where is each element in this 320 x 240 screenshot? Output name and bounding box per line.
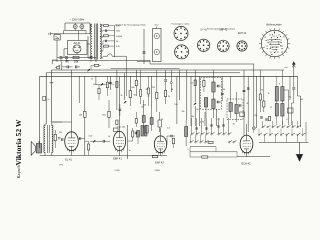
wire drop 216 [215,109,217,126]
svg-text:~ 220V 50Hz: ~ 220V 50Hz [70,19,85,22]
wafer switch spoke [282,54,283,56]
svg-text:3-30: 3-30 [200,122,204,124]
wafer switch spoke [282,31,283,33]
wire primary top lead [90,24,92,26]
wire right corner from bus [297,76,299,96]
padding capacitor box A [142,116,145,123]
wire psu tap rows [102,25,105,27]
rectifier tube V5 AZ41 [73,45,81,53]
wire coil verticals [276,100,278,104]
wire drop 130 [129,76,131,90]
capacitor C12 [109,81,112,83]
wafer switch contact dot [280,45,281,46]
wafer switch extra dots [268,40,269,41]
IF coil Fi2 secondary [235,105,238,114]
wire heater feed down [143,29,145,64]
wafer switch contact dot [278,43,279,44]
socket V4 top view [237,41,247,51]
wafer switch spoke [269,56,272,58]
wire S5 stubs [262,121,264,127]
capacitor row extra 3 [222,124,224,126]
wire mains right drop [89,23,91,26]
wire heater bus second [111,67,180,69]
wire drop 151 [150,76,152,108]
wafer switch spoke [265,31,266,33]
fuse Si1 [73,25,77,29]
capacitor C9 tone [61,138,63,141]
resistor R12 [165,90,167,97]
wire psu taps feed [102,24,104,27]
antenna arrow second chevron [292,65,295,68]
wafer switch contact dot [277,37,278,38]
capacitor box right of Fi2 [240,112,245,117]
capacitor C18 row [195,127,197,129]
resistor R1 tap row 1 [104,25,109,27]
svg-text:Kapsch: Kapsch [16,165,21,179]
ground arrow right [296,155,302,162]
wafer switch contact dot [281,48,282,49]
capacitor C12b [119,108,122,110]
trimmer cap Fi1 top [217,85,219,88]
oscillator coil box right [144,126,147,137]
cluster caps above switch [260,116,263,118]
switch S2 standby [57,66,60,68]
svg-text:0,2: 0,2 [167,128,170,130]
svg-text:6,3V~: 6,3V~ [116,26,121,28]
IF coil Fi1 sec A [204,98,207,108]
wafer switch spoke [262,51,264,52]
socket V3 top view [218,40,230,52]
wire rectifier to transformer [87,43,90,45]
power transformer T1 secondary winding [100,24,101,59]
wire psu right rail [114,26,116,58]
trimmer cap Fi1 bottom [217,101,219,104]
mains switch S1 box [54,35,60,40]
junction arrow 125 [124,101,127,103]
wire drop 179 [179,70,181,100]
resistor R3 filter [73,56,79,58]
svg-text:1M: 1M [79,114,82,116]
svg-text:8k: 8k [289,97,291,99]
RF coil L5 (bottom pair A) [275,104,278,117]
wire fuse to rectifier feed [78,31,80,41]
wafer switch contact dot [274,52,275,53]
capacitor C22 [247,87,250,89]
wire AF coupling [90,140,103,142]
wafer switch spoke [278,56,281,58]
wire tube V1 bottom [71,151,73,156]
switch row S5 lower [258,134,259,135]
wire psu drop to switch [56,58,58,63]
svg-text:25k: 25k [59,132,62,134]
svg-text:h5: h5 [48,99,50,101]
svg-text:200: 200 [191,116,194,118]
volume potentiometer P1 [84,111,87,117]
wafer switch contact dot [265,37,266,38]
wafer switch spoke [288,43,290,45]
wire drop 244 [243,70,245,99]
oscillator coil box left [141,126,144,137]
wafer switch contact dot [281,42,282,43]
svg-text:5000 200: 5000 200 [117,126,126,128]
wafer switch spoke [260,38,262,41]
svg-text:12: 12 [270,107,272,109]
wire secondary taps [100,24,103,26]
rectifier enclosure box [68,41,88,55]
wafer switch spoke [285,51,287,52]
resistor R6a [98,88,100,94]
padding capacitor box B [150,118,153,125]
mains plug ticks [50,32,52,35]
wafer switch contact dot [274,32,275,33]
svg-text:150: 150 [300,99,303,101]
resistor R13 in can [203,80,205,86]
capacitor row extra 1 [210,124,212,126]
switch row S5 upper [262,127,263,128]
wire HT bus upper [52,69,285,71]
resistor R16 [259,94,261,100]
resistor R8 anode [132,131,134,137]
svg-text:70: 70 [261,90,263,92]
IF coil L2 [185,127,188,137]
wire Fi1 leads [212,70,214,82]
svg-text:1n: 1n [128,150,130,152]
wire mains lower horizontal [51,33,91,35]
svg-text:10k: 10k [181,111,184,113]
wire link transformer to tube column [52,121,72,123]
resistor R4 tone [54,134,56,141]
wire heater drop 126 [125,56,127,96]
svg-text:25: 25 [91,79,93,81]
wafer switch contact dot [271,37,272,38]
wire drop 96 [95,58,97,63]
wafer switch contact dot [272,34,273,35]
wafer switch spoke [262,34,264,35]
wire tube V1 top [71,70,73,132]
wire V4 bottom bus [237,156,270,158]
output transformer T2 primary [44,125,45,153]
resistor R9c [135,80,137,86]
wire below fuses [65,30,86,32]
resistor R7 [116,81,118,87]
resistor R17 [263,101,265,107]
socket V2 EAF42 top view [175,45,189,59]
svg-text:2-4A3: 2-4A3 [154,169,160,172]
IF transformer Fi2 enclosure [227,99,243,120]
wire right bottom bus [259,141,309,143]
wafer switch spoke [285,34,287,35]
wire drop 290 [289,76,291,100]
svg-text:AZ 41: AZ 41 [74,41,81,45]
switch row S3 upper contacts [191,134,192,135]
svg-text:ECH 42: ECH 42 [238,33,247,35]
switch row S3 lower contacts [190,142,191,143]
svg-text:0,5: 0,5 [146,89,149,91]
wafer switch contact dot [267,42,268,43]
socket V1 EL41 top view [174,26,188,40]
tube V4 ECH42 [240,135,253,153]
wire V3 bottom [160,153,162,156]
wafer switch contact dot [283,36,284,37]
wire rectifier bottom lead [76,53,78,55]
resistor R19 above bus [94,64,99,66]
svg-text:1k: 1k [268,93,270,95]
wire mid line 151 [190,151,237,153]
wafer switch spoke [274,57,276,59]
svg-text:2k: 2k [148,96,150,98]
tube V2 EBF80 [113,131,125,150]
small box left column [43,96,46,100]
wafer switch spoke [269,29,272,31]
wire drop 124 [123,73,125,100]
capacitor C20 antenna [292,87,295,89]
svg-text:300: 300 [131,87,134,89]
wafer switch contact dot [276,47,277,48]
resistor R2 tap row 3 [104,35,109,37]
wafer switch contact dot [275,39,276,40]
svg-text:100: 100 [174,104,177,106]
wire drop 256 [255,76,257,128]
junction arrow IF [194,103,197,105]
svg-text:5: 5 [187,149,188,151]
wire bottom bus V3 [149,155,167,157]
wire heater crossover [103,54,127,56]
svg-text:0,1: 0,1 [218,119,221,121]
pilot lamp [252,127,255,130]
svg-text:10: 10 [108,136,110,138]
resistor R9 [140,90,142,97]
IF coil Fi1 primary [212,82,215,92]
wire antenna lead [293,64,295,77]
resistor R11 [172,138,174,144]
padding capacitor box C [158,120,162,127]
power transformer T1 core [94,24,96,60]
wire mains top [65,22,90,24]
svg-text:504: 504 [141,107,144,109]
wire drop 79.2 [78,76,80,103]
resistor R14 row [208,141,213,143]
power transformer T1 primary winding [91,24,92,59]
wafer switch contact dot [278,41,279,42]
capacitor row extra 2 [217,125,219,127]
minus tick [50,82,54,84]
wire drop 191 [190,76,192,126]
junction arrow mid [101,83,104,85]
resistor R7c [116,120,118,125]
svg-text:2x300V: 2x300V [116,36,123,38]
capacitor C6 [90,56,93,58]
resistor tap row 5 [104,45,109,47]
IF coil Fi1 sec B [212,99,215,109]
wire drop 165 [165,70,167,79]
wire coil right links [288,90,290,125]
junction pin output tube [58,137,60,139]
wire bottom bus V2 [110,155,149,157]
wafer switch spoke [287,38,289,41]
electrolytic capacitor C5 [65,56,68,58]
svg-text:80: 80 [171,89,173,91]
svg-text:50: 50 [168,96,170,98]
capacitor C7 on bus [66,66,68,69]
svg-text:Wellenschalter: Wellenschalter [266,24,282,27]
svg-text:0,05: 0,05 [89,136,93,138]
wire cluster V2 right [128,140,133,142]
RF coil L4 (top pair B) [281,87,284,102]
svg-text:2-302: 2-302 [114,170,120,172]
svg-text:(77): (77) [59,165,63,167]
wire HT bus middle [46,72,240,74]
svg-text:EBF 41: EBF 41 [113,157,122,161]
IF transformer Fi1 enclosure [201,78,222,110]
svg-text:Fassungen v. unten: Fassungen v. unten [171,23,190,26]
bottom boxes small [114,128,119,132]
junction arrow AF signal [93,140,96,142]
oscillator coil L1 [137,131,140,138]
output transformer T2 secondary [52,125,53,153]
junction ring [170,82,172,84]
capacitor C19 row [205,127,207,129]
antenna arrow [292,62,295,65]
loudspeaker LS [31,142,35,156]
wire psu bottom bus second [52,59,150,61]
wafer switch spoke [287,47,289,50]
svg-text:UY 41: UY 41 [200,30,207,32]
wire speaker leads [38,141,40,144]
tube V3 EAF42 [154,136,166,153]
wire V4 top [246,124,248,135]
wire switch rows vertical stubs [191,118,193,134]
capacitor C1 tap row 2 [104,30,106,32]
resistor R20 on bottom [152,155,158,157]
capacitor C21 [243,89,246,91]
wafer switch spoke [265,54,266,56]
junction arrow on bus [87,69,90,71]
resistor R21 [147,88,149,94]
capacitor C17 on drop [164,79,167,81]
capacitor C3 heater [143,51,146,53]
wafer switch contact dot [266,40,267,41]
wire V2 top [119,76,121,131]
wire primary bottom lead [88,57,92,59]
wire drop 186 [186,70,188,120]
wire drop 195 [194,70,196,102]
wire R4 [54,130,56,134]
wire bus corner drop 51.5 [51,70,53,122]
trimmer vertical 222 [221,92,224,94]
wafer switch contact dot [272,47,273,48]
wafer switch spoke [274,28,276,30]
svg-text:ECH 42: ECH 42 [241,162,251,166]
svg-text:Viktoria 52 W: Viktoria 52 W [14,119,23,165]
svg-text:ant: ant [285,66,288,69]
wire drop 117 [116,70,118,110]
wafer switch spoke [260,47,262,50]
capacitor C13 [134,132,136,134]
wafer switch contact dot [270,48,271,49]
svg-text:a b: a b [273,52,276,54]
svg-text:16: 16 [232,124,234,126]
coupling capacitor C11 [102,140,104,143]
box small right of coils [288,108,294,113]
wire switch drop [56,40,58,58]
svg-text:EL 41: EL 41 [65,158,72,162]
svg-text:40: 40 [246,103,248,105]
IF can side view [153,29,162,62]
wafer switch contact dot [271,54,272,55]
wire primary right drop [89,26,91,34]
wire V2 bottom [119,151,121,156]
wafer switch contact dot [267,48,268,49]
wire mains routing [64,30,66,32]
wire bus left verticals [45,73,47,124]
wire cluster V3 right [166,136,168,145]
svg-text:30: 30 [223,89,225,91]
resistor R15 row [202,156,208,158]
output tube V1 EL41 [65,132,79,151]
speaker field magnet [36,144,42,154]
wire drop 110 [109,76,111,90]
svg-text:4V~: 4V~ [116,41,119,43]
wire bottom right stubs [189,147,191,157]
electrolytic capacitor C4 [60,56,63,58]
wire heater horizontal [137,60,151,62]
socket V5 rectifier top view [197,39,209,51]
fuse Si2 [80,25,84,29]
IF coil Fi2 primary [229,103,232,112]
wafer switch spoke [278,29,281,31]
resistor R9b [129,91,131,98]
svg-text:EAF 42: EAF 42 [219,29,227,32]
wire V4 grid drops [243,99,245,135]
wire V3 top [160,128,162,136]
RF coil L3 (top pair A) [275,87,278,102]
wire drop 205 [204,112,206,126]
svg-text:60: 60 [196,109,198,111]
resistor R9d [135,119,137,124]
wire far right vertical [305,122,307,136]
grid capacitor C10 [79,137,81,140]
capacitor C2 tap row 4 [104,40,106,42]
wafer switch contact dot [282,51,283,52]
resistor R7b [108,111,110,117]
wire transformer top leads [44,124,46,126]
svg-text:20: 20 [161,119,163,121]
resistor R10 [156,92,158,99]
wire heater bus right [149,60,151,64]
svg-text:125: 125 [254,115,257,117]
svg-text:6: 6 [286,119,287,121]
wire drop 199 [198,76,200,126]
wire Fi2 leads [230,76,232,102]
svg-text:5k: 5k [121,95,123,97]
wire drop 248 [247,76,249,99]
wire V4 bottom [246,153,248,157]
wafer switch contact dot [270,43,271,44]
wafer switch contact dot [271,40,272,41]
trimmer cap Fi2 [239,104,241,107]
resistor R6b [106,82,108,88]
wafer switch inner marks [269,39,280,41]
svg-text:8: 8 [279,84,280,86]
svg-text:EAF 42: EAF 42 [155,160,164,164]
wire rectifier left lead [64,48,68,50]
resistor R13b outside [194,80,196,86]
svg-text:1 2 3: 1 2 3 [273,36,277,38]
wafer switch contact dot [276,49,277,50]
wire mains left drop [64,23,66,31]
rotary wafer switch disc [261,30,287,56]
capacitor C8 on bus [75,66,77,69]
